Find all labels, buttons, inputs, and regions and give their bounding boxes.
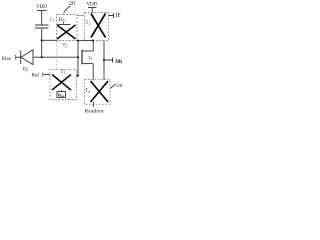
transistor T1 X symbol [91, 14, 106, 38]
svg-text:IF: IF [116, 13, 122, 19]
label T1 [86, 21, 91, 26]
junction dot (104,60) [103, 59, 105, 61]
stub wire to DB label [104, 58, 113, 63]
input label Ref [32, 72, 40, 79]
label C1 (faint) [50, 17, 55, 23]
transistor T3 X symbol [52, 75, 71, 91]
wire T1 drain down to T5 [92, 41, 94, 51]
label D1 [23, 68, 28, 73]
svg-text:Readout: Readout [85, 109, 105, 115]
power label VDD (right) [87, 2, 98, 8]
svg-text:Ref: Ref [32, 72, 40, 79]
transistor T2 X symbol [57, 25, 76, 39]
dashed box around T1 (top right device) [85, 13, 109, 41]
junction dot right (93,40.6) [92, 40, 94, 42]
reference numeral 26 [117, 83, 123, 89]
wire T4 down to Readout [93, 102, 95, 107]
label T3 [61, 70, 66, 75]
wire box T3 right to bus [77, 75, 79, 77]
output label +IF [116, 13, 122, 19]
junction dot at cap wire [41, 56, 43, 58]
svg-text:Bias: Bias [2, 56, 11, 62]
svg-text:T4: T4 [85, 89, 90, 94]
vertical bus wire x78 [77, 41, 79, 76]
junction dot (78,75.6) [77, 75, 79, 77]
T5 bottom lead [82, 63, 93, 65]
resistor label Rrv [59, 18, 65, 23]
svg-text:T1: T1 [86, 21, 91, 26]
svg-text:Rm: Rm [58, 93, 64, 99]
label Rm [58, 93, 64, 99]
svg-text:D1: D1 [23, 68, 28, 73]
transistor T5 (middle coupling device) channel bar [81, 50, 83, 65]
label Readout [85, 109, 105, 115]
leader line for 20 [64, 6, 71, 14]
power rail bar (right VDD) [88, 7, 97, 9]
svg-text:T2: T2 [63, 44, 68, 49]
wire T3 down to Rm [61, 90, 63, 92]
node wire under T1 box [78, 40, 93, 42]
T5 top lead [82, 50, 93, 52]
junction node at y40 [41, 39, 43, 41]
power label VDD (left) [36, 4, 47, 10]
junction dot left (78,40.6) [77, 40, 79, 42]
svg-text:VDD: VDD [36, 4, 47, 10]
bar above transistor X (T2) [58, 24, 71, 26]
label T2 under box [63, 44, 68, 49]
ref tick [42, 72, 44, 77]
svg-text:VDD: VDD [87, 2, 98, 8]
junction dot at gate bus [77, 56, 79, 58]
leader line for 26 [110, 84, 116, 89]
svg-text:T3: T3 [61, 70, 66, 75]
wire between box T2 and box T1 (top) [77, 15, 85, 17]
diode D1 triangle [21, 50, 33, 65]
wire bias to diode [16, 56, 21, 58]
dashed box around T4 (bottom right device) [85, 80, 111, 105]
output stub wire (top right) [109, 13, 114, 18]
svg-text:T5: T5 [88, 56, 93, 62]
wire capacitor down to RF node [41, 28, 43, 57]
capacitor C1 plates [35, 25, 49, 28]
label T4 [85, 89, 90, 94]
label T5 [88, 56, 93, 62]
vertical wire x104 between T1 and T4 [103, 41, 105, 80]
svg-text:Rrv: Rrv [59, 18, 65, 23]
tick from Rrv to bar [63, 22, 65, 25]
wire Ref into box T3 [43, 74, 50, 76]
wire branch into box T2 [42, 39, 57, 41]
resistor Rm box [57, 92, 66, 98]
reference numeral 20 with leader [69, 1, 75, 7]
svg-text:C1: C1 [50, 17, 55, 23]
RF wire from diode to gate bus [33, 56, 78, 58]
dashed box around T2 (left mixer device) [57, 15, 78, 41]
svg-text:26: 26 [117, 83, 123, 89]
label DB [115, 60, 123, 65]
diode D1 cathode bar [20, 51, 22, 65]
svg-text:DB: DB [115, 60, 123, 65]
wire T5 down to box T4 [92, 64, 94, 80]
input label Bias [2, 56, 11, 62]
input tick [15, 55, 17, 60]
wire VDD-left down to capacitor [41, 11, 43, 26]
wire VDD-right down into box T1 [91, 8, 93, 14]
faint dashed link between left boxes [56, 41, 58, 69]
power rail bar (left VDD) [37, 10, 47, 12]
transistor T4 X symbol [91, 81, 109, 102]
dashed box around T3 (bottom middle device) [50, 70, 77, 100]
